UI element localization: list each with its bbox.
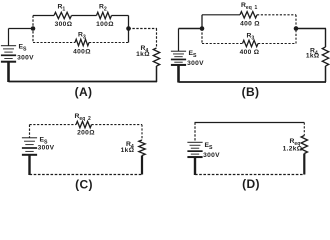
svg-text:300V: 300V: [17, 55, 34, 62]
wire: D right vertical below Req: [303, 154, 305, 175]
wire: B outer right vertical below R4: [325, 66, 327, 82]
node: B left junction: [200, 26, 205, 31]
wire: A parallel-box left vertical: [32, 16, 34, 43]
svg-text:ES: ES: [189, 50, 198, 59]
svg-text:400 Ω: 400 Ω: [240, 49, 260, 56]
svg-text:300Ω: 300Ω: [55, 21, 73, 28]
wire: A outer right vertical above R4: [156, 29, 158, 49]
node: A right junction: [126, 26, 131, 31]
wire: battery ES(B) bottom lead: [177, 65, 180, 83]
battery ES (A) 300V: [1, 45, 16, 47]
wire: A top branch middle segment: [72, 15, 97, 17]
wire: A parallel-box right vertical: [128, 16, 130, 43]
wire: B outer right vertical above R4: [325, 29, 327, 48]
wire: C top right segment: [92, 124, 143, 126]
svg-text:100Ω: 100Ω: [96, 21, 114, 28]
svg-text:R3: R3: [247, 33, 255, 42]
battery ES (D) 300V: [187, 141, 202, 143]
wire: A bottom return: [9, 81, 158, 83]
wire: B R3 branch left segment: [202, 43, 243, 45]
resistor Req2 200 ohm: [76, 121, 92, 127]
svg-text:ES: ES: [205, 142, 214, 151]
svg-text:1kΩ: 1kΩ: [121, 147, 135, 154]
wire: battery ES(C) top lead: [29, 125, 31, 138]
wire: D right vertical above Req: [303, 123, 305, 136]
wire: battery ES(D) top lead: [194, 123, 196, 143]
wire: C right vertical above R4: [141, 125, 143, 140]
wire: battery ES(C) bottom lead: [28, 155, 30, 175]
battery ES (B) 300V: [171, 50, 186, 52]
svg-text:1kΩ: 1kΩ: [306, 53, 320, 60]
svg-text:(D): (D): [242, 177, 260, 191]
wire: B right junction to outer right: [296, 28, 326, 30]
wire: B top branch right segment: [257, 14, 296, 16]
wire: A R3 branch left segment: [33, 42, 75, 44]
svg-text:200Ω: 200Ω: [77, 130, 95, 137]
svg-text:1.2kΩ: 1.2kΩ: [283, 146, 303, 153]
svg-text:R3: R3: [78, 32, 86, 41]
wire: battery ES(D) bottom lead: [194, 157, 196, 175]
wire: B R3 branch right segment: [258, 43, 296, 45]
svg-text:R2: R2: [99, 4, 107, 13]
svg-text:1kΩ: 1kΩ: [136, 51, 150, 58]
wire: A battery to left node: [9, 28, 34, 30]
wire: C bottom return: [30, 174, 143, 176]
svg-text:ES: ES: [19, 44, 28, 53]
resistor R4 1k ohm (C): [139, 140, 145, 156]
wire: C right vertical below R4: [141, 156, 143, 175]
resistor Req1 400 ohm: [240, 12, 257, 18]
wire: B bottom return: [179, 81, 327, 83]
resistor R2 100 ohm: [97, 12, 112, 18]
resistor R3 400 ohm (B): [243, 40, 259, 46]
node: A left junction: [31, 26, 36, 31]
svg-text:300V: 300V: [187, 60, 204, 67]
resistor R4 1k ohm (A): [153, 48, 159, 66]
resistor R4 1k ohm (B): [322, 47, 328, 66]
wire: B parallel-box right vertical: [295, 15, 297, 44]
svg-text:300V: 300V: [203, 152, 220, 159]
svg-text:Req 1: Req 1: [241, 2, 258, 11]
wire: B battery to left node: [179, 28, 203, 30]
svg-text:R1: R1: [58, 4, 66, 13]
svg-text:400 Ω: 400 Ω: [240, 20, 260, 27]
wire: B parallel-box left vertical lower: [201, 29, 203, 44]
svg-text:300V: 300V: [38, 145, 55, 152]
node: B right junction: [294, 26, 299, 31]
svg-text:400Ω: 400Ω: [73, 49, 91, 56]
battery ES (C) 300V: [22, 137, 37, 139]
wire: B top branch left segment: [202, 14, 240, 16]
wire: A right junction to outer right: [129, 28, 158, 30]
wire: battery ES(A) top lead: [8, 29, 10, 46]
resistor Req 1.2k ohm: [301, 136, 307, 154]
svg-text:(C): (C): [75, 178, 93, 192]
wire: A top branch left segment: [33, 15, 54, 17]
wire: battery ES(B) top lead: [178, 29, 180, 52]
wire: C top left segment: [30, 124, 77, 126]
resistor R3 400 ohm: [75, 39, 89, 45]
wire: A top branch right segment: [112, 15, 129, 17]
wire: A outer right vertical below R4: [156, 66, 158, 82]
wire: A R3 branch right segment: [89, 42, 129, 44]
wire: D bottom return: [195, 174, 304, 176]
resistor R1 300 ohm: [54, 12, 72, 18]
svg-text:(A): (A): [75, 85, 93, 99]
svg-text:(B): (B): [242, 85, 260, 99]
wire: battery ES(A) bottom lead: [7, 62, 10, 82]
wire: B parallel-box left vertical upper: [201, 15, 203, 29]
wire: D top: [195, 122, 305, 124]
